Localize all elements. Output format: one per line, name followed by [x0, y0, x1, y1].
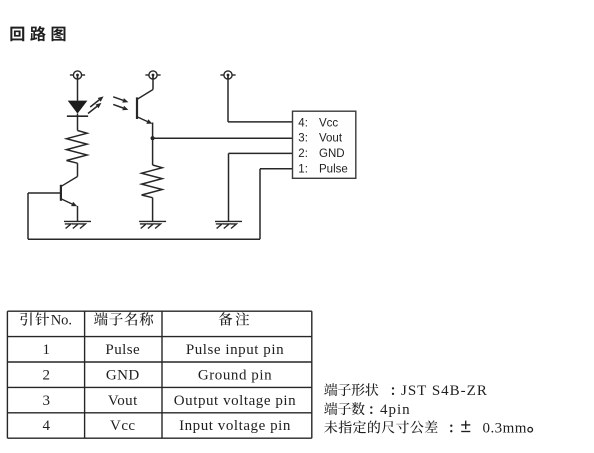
svg-text:2:: 2:	[298, 148, 308, 160]
pin assignment table	[7, 311, 311, 438]
svg-text:4:: 4:	[298, 117, 308, 129]
wire pulse to connector	[260, 168, 293, 170]
svg-text:No.: No.	[51, 313, 72, 329]
wire Q2 emitter down	[152, 123, 154, 166]
table header 备注 (remarks)	[219, 312, 249, 325]
plus-minus sign	[461, 421, 470, 432]
svg-text:Vcc: Vcc	[319, 117, 338, 129]
resistor R1	[67, 131, 88, 164]
svg-text:3: 3	[42, 393, 50, 409]
wire GND vertical	[228, 153, 230, 221]
svg-text:JST S4B-ZR: JST S4B-ZR	[401, 383, 488, 399]
note colon 2	[370, 406, 372, 414]
connector J1 box	[293, 111, 356, 178]
wire R1 to Q1 collector	[77, 163, 79, 176]
note colon 1	[392, 387, 394, 395]
wire T2 to Q2 collector	[152, 79, 154, 89]
svg-text:Pulse input pin: Pulse input pin	[186, 342, 284, 358]
Q1 emitter arrow	[61, 199, 77, 207]
note colon 3	[450, 425, 452, 433]
svg-text:Input voltage pin: Input voltage pin	[179, 418, 291, 434]
svg-text:Pulse: Pulse	[105, 342, 140, 358]
light reception arrow 2	[113, 104, 128, 110]
svg-text:4: 4	[42, 418, 50, 434]
resistor R2	[142, 165, 163, 198]
note 未指定的尺寸公差 (unspecified dimension tolerance)	[324, 420, 437, 433]
terminal T3 (Vcc supply)	[220, 71, 235, 79]
wire bottom horizontal	[28, 238, 260, 240]
ideographic full stop	[528, 427, 533, 432]
svg-text:Pulse: Pulse	[319, 164, 348, 176]
title 回路图 (circuit diagram)	[10, 26, 65, 41]
ground G3	[215, 221, 242, 228]
ground G1	[64, 221, 91, 228]
svg-text:1:: 1:	[298, 164, 308, 176]
terminal T1 (LED anode supply)	[70, 71, 85, 79]
svg-text:Vcc: Vcc	[110, 418, 136, 434]
svg-text:1: 1	[42, 342, 50, 358]
note 端子形状 (terminal shape)	[324, 383, 378, 396]
phototransistor Q2	[137, 90, 153, 120]
wire Q1 emitter down	[77, 206, 79, 222]
svg-text:GND: GND	[319, 148, 345, 160]
wire Vcc to connector	[228, 121, 293, 123]
svg-text:2: 2	[42, 367, 50, 383]
svg-text:Output voltage pin: Output voltage pin	[174, 393, 296, 409]
ground G2	[139, 221, 166, 228]
svg-text:4pin: 4pin	[380, 402, 411, 418]
wire GND from connector	[229, 152, 293, 154]
svg-text:0.3mm: 0.3mm	[483, 420, 527, 436]
transistor Q1 (NPN)	[60, 177, 77, 201]
table header 端子名称 (terminal name)	[94, 312, 153, 325]
light emission arrow 1	[90, 96, 103, 107]
wire R2 to ground	[152, 198, 154, 222]
LED D1 (infrared emitter)	[67, 101, 88, 117]
junction node Vout	[151, 136, 155, 140]
wire T3 down	[227, 79, 229, 122]
Q2 emitter arrow	[137, 117, 152, 124]
terminal T2 (phototransistor collector supply)	[145, 71, 160, 79]
svg-text:Vout: Vout	[108, 393, 138, 409]
wire Q1 base left	[28, 192, 60, 194]
svg-text:3:: 3:	[298, 133, 308, 145]
wire T1 to LED anode	[77, 79, 79, 101]
wire pulse vertical	[259, 169, 261, 239]
wire left vertical	[27, 193, 29, 239]
note 端子数 (number of terminals)	[324, 402, 365, 415]
light reception arrow 1	[113, 97, 128, 103]
wire Vout to connector	[153, 137, 293, 139]
table header 引针No.	[20, 312, 49, 325]
svg-text:GND: GND	[106, 367, 140, 383]
svg-text:Ground pin: Ground pin	[198, 367, 272, 383]
light emission arrow 2	[88, 103, 101, 114]
wire LED cathode to R1	[77, 114, 79, 131]
svg-text:Vout: Vout	[319, 133, 343, 145]
